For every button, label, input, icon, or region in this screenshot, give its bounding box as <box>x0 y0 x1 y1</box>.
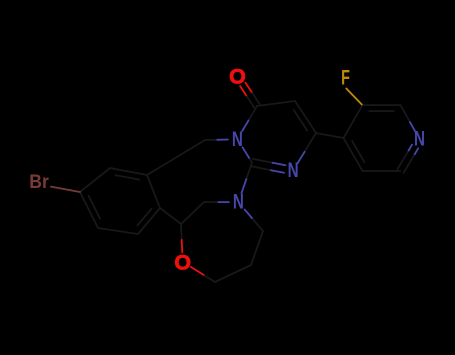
wire B4=B5 <box>138 208 160 234</box>
wire Cp2-Np half-2 <box>410 122 415 132</box>
wire Np=Cp6 half-2 <box>404 155 414 172</box>
svg-text:N: N <box>414 128 425 151</box>
wire C5=C6 <box>295 101 316 133</box>
wire Cp2-Np half-1 <box>401 105 411 122</box>
wire C4=O half-1 <box>245 83 252 93</box>
wire C4=O half-1 <box>240 86 247 96</box>
wire Br-B1 <box>51 187 80 192</box>
wire Cc-Cb <box>215 265 251 282</box>
svg-text:N: N <box>232 128 243 151</box>
wire Oe-Cc half-1 <box>191 267 205 276</box>
svg-text:N: N <box>233 191 244 214</box>
wire C5=C6 inner <box>294 110 307 130</box>
wire C2-Nc half-1 <box>246 163 252 180</box>
wire Cq-Oe half-2 <box>181 240 184 253</box>
wire F-Cp3 <box>346 88 362 104</box>
wire B2=B3 inner <box>116 175 140 179</box>
wire Cq-Oe half-1 <box>180 224 183 240</box>
wire Cp4-Cp3 <box>344 105 363 138</box>
wire B3-B4 <box>147 175 160 208</box>
wire C6-N1 half-1 <box>305 133 316 152</box>
wire Nc-Cd half-2 <box>204 201 217 203</box>
wire N3-CH2 half-2 <box>205 139 216 141</box>
wire Cp3=Cp2 inner <box>369 110 393 112</box>
wire Cq-B4 <box>160 208 181 224</box>
wire N3-CH2 half-1 <box>216 139 228 141</box>
wire C2-N3 half-2 <box>243 147 250 158</box>
wire Cp6-Cp5 <box>363 170 401 172</box>
wire Cp5=Cp4 inner <box>352 141 364 162</box>
wire B4=B5 inner <box>137 209 151 226</box>
svg-text:F: F <box>341 65 350 89</box>
wire B2=B3 <box>110 168 147 175</box>
wire B6=B1 inner <box>89 196 101 219</box>
svg-text:Br: Br <box>29 171 49 193</box>
wire B1-B2 <box>80 168 110 192</box>
wire Np=Cp6 half-1 <box>408 145 412 152</box>
wire Nc-Cd half-1 <box>217 201 229 203</box>
wire C2=N1 half-1 <box>253 159 273 163</box>
wire N3-C4 half-1 <box>242 119 249 131</box>
wire C2=N1 half-2 <box>271 170 284 173</box>
wire C6-N1 half-2 <box>298 152 305 164</box>
wire N3-C4 half-2 <box>249 106 257 119</box>
svg-text:N: N <box>288 159 299 182</box>
svg-text:O: O <box>229 64 246 88</box>
wire B5-B6 <box>98 228 138 234</box>
wire Ca-Nc half-2 <box>245 209 252 218</box>
wire C2-Nc half-2 <box>242 179 247 193</box>
svg-text:O: O <box>174 250 191 274</box>
wire C4-C5 <box>257 101 295 106</box>
wire Ca-Nc half-1 <box>252 218 263 231</box>
wire Np=Cp6 half-1 <box>414 148 418 155</box>
wire B6=B1 <box>80 192 98 228</box>
wire Cp3=Cp2 <box>363 104 401 106</box>
wire C4=O half-2 <box>252 93 259 104</box>
wire C2=N1 half-1 <box>251 166 271 170</box>
wire Cd-Cq <box>181 202 204 224</box>
wire Np=Cp6 half-2 <box>397 152 408 170</box>
wire C4=O half-2 <box>247 97 254 108</box>
wire Cb-Ca <box>251 231 263 265</box>
wire Cp5=Cp4 <box>344 138 363 171</box>
wire Oe-Cc half-2 <box>205 276 215 282</box>
wire CH2-B3 <box>147 140 205 175</box>
wire C2-N3 half-1 <box>249 158 252 163</box>
wire C6-Cp4 <box>316 133 344 138</box>
wire C2=N1 half-2 <box>273 163 286 166</box>
